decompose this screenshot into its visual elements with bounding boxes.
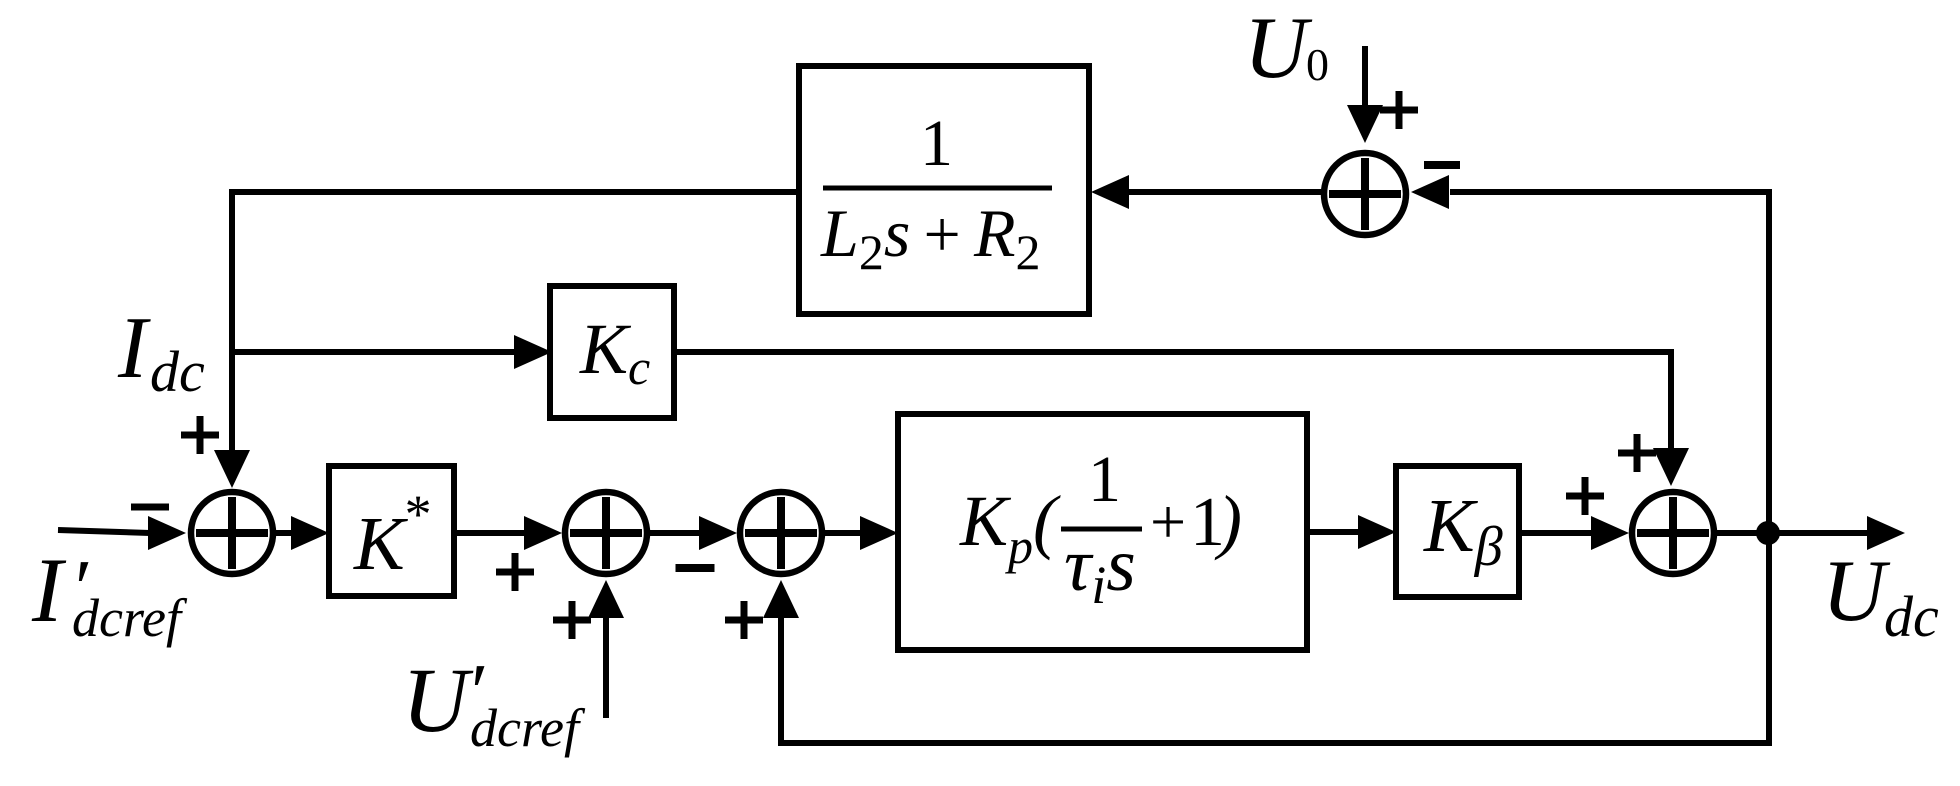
arrowhead into S2 bottom bbox=[588, 580, 624, 618]
block Kp PI controller bbox=[898, 414, 1307, 650]
arrowhead into S3 bottom bbox=[763, 580, 799, 618]
arrowhead into S3 left bbox=[699, 516, 737, 550]
arrowhead into B1 right bbox=[1091, 175, 1129, 209]
arrowhead Kc wire down into S4 top bbox=[1653, 448, 1689, 486]
block K* bbox=[329, 466, 454, 596]
svg-text:1: 1 bbox=[1088, 443, 1121, 516]
plus sign at U'dcref arrow bbox=[553, 601, 591, 639]
minus sign between S2 and S3 bbox=[676, 564, 715, 572]
svg-text:dcref: dcref bbox=[470, 698, 586, 758]
wire Kc output to S4 top bbox=[674, 352, 1671, 450]
node dot output bbox=[1756, 521, 1780, 545]
arrowhead into K* bbox=[291, 516, 329, 550]
minus sign at S1 input bbox=[131, 504, 169, 511]
block Kbeta bbox=[1396, 466, 1519, 597]
arrowhead into S2 left bbox=[524, 516, 562, 550]
plus sign at U0 input bbox=[1380, 91, 1418, 129]
summing junction ST top right bbox=[1324, 153, 1406, 235]
arrowhead U0 into ST top bbox=[1347, 105, 1383, 143]
svg-text:K: K bbox=[353, 502, 408, 586]
plus sign before S2 bbox=[496, 553, 534, 591]
svg-text:1: 1 bbox=[920, 107, 953, 180]
svg-text:Kβ: Kβ bbox=[1423, 484, 1503, 578]
svg-text:L2s + R2: L2s + R2 bbox=[820, 195, 1041, 280]
svg-text:Kc: Kc bbox=[579, 309, 650, 395]
wire S4 to output Udc bbox=[1717, 530, 1870, 536]
svg-text:*: * bbox=[402, 484, 429, 544]
wire Kp to Kbeta bbox=[1307, 529, 1361, 535]
arrowhead into Kbeta bbox=[1358, 515, 1396, 549]
block Kc bbox=[550, 286, 674, 418]
arrowhead into S1 top bbox=[214, 450, 250, 488]
summing junction S4 bbox=[1632, 492, 1714, 574]
svg-text:dcref: dcref bbox=[72, 588, 188, 648]
svg-text:U: U bbox=[1822, 543, 1891, 640]
wire ST output to B1 bbox=[1128, 189, 1321, 195]
plus sign at S4 top input bbox=[1618, 434, 1656, 472]
wire U'dcref up into S2 bbox=[603, 618, 609, 718]
arrowhead into Kp bbox=[860, 516, 898, 550]
svg-text:+: + bbox=[1150, 486, 1186, 557]
svg-text:I: I bbox=[31, 539, 67, 641]
arrowhead into ST right bbox=[1411, 175, 1449, 209]
svg-text:): ) bbox=[1214, 481, 1242, 561]
wire S1 to K* bbox=[276, 530, 294, 536]
plus sign at S1 top input bbox=[181, 416, 219, 454]
svg-text:U: U bbox=[402, 649, 474, 751]
wire B1 output left and down to S1 bbox=[232, 192, 799, 452]
fraction bar in Kp bbox=[1061, 527, 1142, 532]
wire Idc tap to Kc bbox=[232, 349, 517, 355]
fraction bar in B1 bbox=[823, 186, 1052, 191]
summing junction S1 bbox=[191, 492, 273, 574]
wire Kbeta to S4 bbox=[1519, 530, 1595, 536]
block B1 transfer function 1/(L2s+R2) bbox=[799, 66, 1089, 314]
arrowhead into Kc bbox=[514, 335, 552, 369]
wire input I'dcref bbox=[58, 530, 150, 533]
plus sign at S3 bottom input bbox=[725, 601, 763, 639]
svg-text:Kp(: Kp( bbox=[959, 481, 1061, 574]
wire U0 down into ST bbox=[1362, 46, 1368, 107]
svg-text:U: U bbox=[1244, 0, 1313, 97]
minus sign at ST right input bbox=[1424, 161, 1460, 169]
svg-text:dc: dc bbox=[1884, 584, 1939, 649]
summing junction S3 bbox=[740, 492, 822, 574]
wire S2 to S3 bbox=[650, 530, 702, 536]
summing junction S2 bbox=[565, 492, 647, 574]
wire S3 to Kp bbox=[825, 530, 864, 536]
svg-text:dc: dc bbox=[150, 339, 205, 404]
wire feedback: top into ST, right vertical, bottom, up into S3 bbox=[781, 192, 1769, 743]
svg-text:I: I bbox=[117, 300, 151, 397]
arrowhead input into S1 left bbox=[148, 516, 186, 550]
svg-text:τis: τis bbox=[1064, 523, 1136, 615]
arrowhead into S4 left bbox=[1591, 516, 1629, 550]
svg-text:0: 0 bbox=[1306, 39, 1329, 90]
arrowhead output Udc bbox=[1867, 516, 1905, 550]
plus sign before S4 left bbox=[1566, 477, 1604, 515]
wire K* to S2 bbox=[454, 530, 528, 536]
